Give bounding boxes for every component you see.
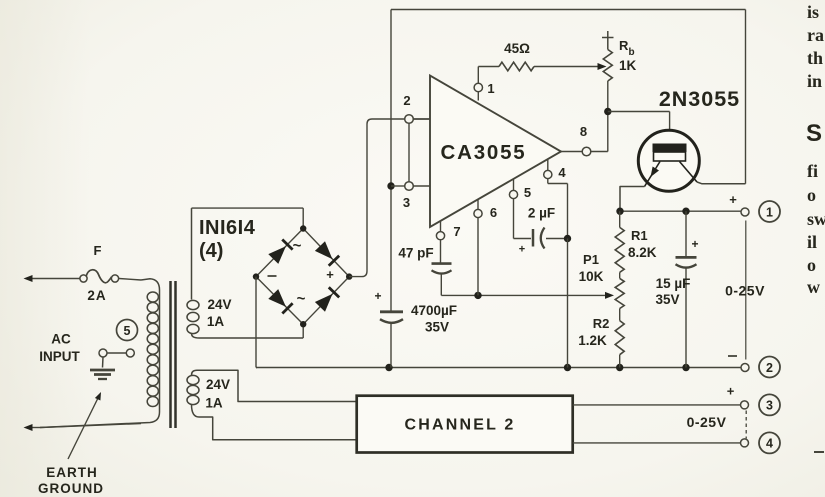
svg-text:is: is: [807, 2, 819, 22]
svg-text:7: 7: [453, 224, 460, 239]
node terminal 4 circled: [759, 432, 780, 453]
AC input terminal pair: [99, 349, 134, 357]
arrow AC line bottom left: [24, 424, 33, 431]
label 15uF 35V: [655, 276, 690, 307]
transistor emitter lead: [620, 162, 660, 212]
wire feedback to P1 wiper: [441, 294, 605, 296]
node 15uF top junction: [682, 208, 689, 215]
transformer core: [171, 281, 176, 428]
svg-text:1A: 1A: [205, 396, 223, 411]
op-amp pin 1: [474, 67, 495, 101]
svg-text:+: +: [326, 267, 334, 282]
wire channel2 plus out: [573, 404, 741, 406]
node pin6 junction: [474, 292, 481, 299]
wire top V+ rail frame: [391, 10, 746, 312]
wire R1 top lead: [619, 211, 621, 227]
svg-text:2: 2: [403, 93, 410, 108]
svg-text:2 µF: 2 µF: [528, 206, 555, 221]
svg-text:4: 4: [558, 165, 566, 180]
label CHANNEL 2: [404, 417, 515, 434]
svg-text:10K: 10K: [579, 269, 604, 284]
node bridge plus corner: [346, 273, 352, 279]
label plus terminal3: [727, 384, 735, 399]
label 24V 1A lower: [205, 377, 230, 411]
label 24V 1A upper: [207, 297, 232, 329]
transformer primary winding: [40, 279, 160, 428]
svg-text:1.2K: 1.2K: [578, 333, 607, 348]
svg-text:0-25V: 0-25V: [725, 283, 765, 299]
svg-text:sw: sw: [807, 209, 825, 229]
svg-text:35V: 35V: [425, 320, 449, 335]
wire 45ohm to Rb wiper: [534, 66, 598, 68]
block CHANNEL 2: [357, 396, 573, 453]
label 2A: [87, 288, 106, 303]
svg-text:+: +: [727, 384, 735, 399]
label 4700uF 35V: [411, 303, 457, 335]
capacitor 15uF: [676, 211, 699, 367]
wire R1-P1 link: [619, 272, 621, 278]
terminal 3 post: [741, 401, 749, 409]
label 0-25V upper: [725, 283, 765, 299]
transformer secondary 2 winding: [187, 370, 357, 440]
label 45 ohm: [504, 41, 530, 56]
label 0-25V lower: [687, 414, 727, 430]
resistor R2 1.2K: [615, 321, 624, 355]
capacitor 47pF: [432, 240, 452, 296]
diode D4 bridge bottom-right: [315, 287, 339, 311]
label Rb: [619, 38, 637, 73]
op-amp U1 CA3055 body: [430, 76, 561, 228]
node terminal 1 circled: [759, 201, 780, 222]
svg-text:fi: fi: [807, 161, 818, 181]
svg-text:w: w: [807, 277, 820, 297]
label 2N3055: [659, 87, 740, 111]
label 2uF plus: [519, 244, 525, 256]
wire pin6 down: [477, 218, 479, 296]
op-amp pin 7: [436, 221, 460, 240]
wire ground rail: [256, 367, 741, 369]
label plus terminal1: [729, 192, 737, 207]
transistor collector lead: [680, 162, 746, 184]
label 47pF: [398, 246, 433, 261]
svg-text:in: in: [807, 71, 822, 91]
bridge rectifier frame: [256, 229, 349, 325]
node terminal 3 circled: [759, 394, 780, 415]
resistor 45 ohm: [499, 62, 534, 71]
label minus terminal2: [728, 355, 737, 357]
fuse F terminals: [80, 275, 119, 282]
svg-text:CA3055: CA3055: [440, 141, 526, 164]
diode D2 bridge top-right: [315, 241, 339, 265]
svg-text:INI6I4: INI6I4: [199, 217, 256, 239]
svg-text:0-25V: 0-25V: [687, 414, 727, 430]
node junction pin3 tap on V+ rail: [387, 182, 394, 189]
wire base lead: [608, 112, 670, 147]
wire voltage bracket 3-4: [745, 411, 747, 439]
op-amp pin 8: [561, 124, 608, 156]
op-amp pin 4: [544, 159, 567, 180]
svg-text:8: 8: [580, 124, 587, 139]
wire R2 bottom lead: [619, 355, 621, 368]
potentiometer Rb 1K: [602, 31, 614, 152]
label bridge plus: [326, 267, 334, 282]
label EARTH GROUND: [38, 465, 104, 496]
wire pin5 down: [514, 199, 532, 239]
potentiometer P1 10K: [615, 278, 624, 308]
arrow Rb wiper: [598, 63, 607, 70]
svg-text:AC: AC: [51, 332, 71, 347]
svg-text:~: ~: [297, 291, 306, 308]
svg-text:47 pF: 47 pF: [398, 246, 433, 261]
wire AC line top: [30, 279, 141, 281]
wire 2uF junction to ground rail: [567, 239, 569, 368]
terminal 2 post: [741, 364, 749, 372]
svg-text:th: th: [807, 48, 823, 68]
transistor Q1 2N3055 body: [638, 130, 699, 191]
diode D1 bridge top-left: [268, 240, 292, 264]
svg-text:(4): (4): [199, 240, 223, 262]
node bridge AC bottom: [300, 321, 306, 327]
label bridge tilde bottom: [297, 291, 306, 308]
terminal 1 post: [741, 208, 749, 216]
svg-text:24V: 24V: [206, 377, 230, 392]
svg-text:1: 1: [487, 81, 494, 96]
svg-text:1: 1: [766, 205, 773, 219]
wire pin4 to 2uF: [548, 179, 568, 239]
wire P1-R2 link: [619, 309, 621, 321]
node Rb-base junction: [604, 108, 611, 115]
svg-text:2: 2: [766, 361, 773, 375]
svg-text:+: +: [691, 237, 698, 251]
wire bridge minus to ground rail: [256, 277, 257, 368]
op-amp pin 5: [509, 179, 531, 200]
wire pin1 to R 45ohm: [478, 66, 499, 68]
node ground rail x620: [616, 364, 623, 371]
arrow earth ground pointer: [68, 392, 101, 459]
svg-text:5: 5: [124, 324, 131, 338]
wire voltage bracket 1-2: [745, 221, 747, 360]
arrow P1 wiper: [605, 292, 614, 299]
wire secondary1 top to bridge AC top: [192, 208, 304, 228]
svg-text:o: o: [807, 185, 816, 205]
svg-text:R1: R1: [631, 228, 648, 243]
svg-text:INPUT: INPUT: [39, 349, 80, 364]
svg-text:24V: 24V: [207, 297, 231, 312]
earth ground symbol: [90, 357, 115, 379]
label IN1614 (4): [199, 217, 256, 262]
arrow AC line top left: [24, 275, 33, 282]
diode D3 bridge bottom-left: [268, 289, 292, 313]
label R2 1.2K: [578, 316, 609, 348]
svg-text:3: 3: [403, 195, 410, 210]
svg-text:1A: 1A: [207, 314, 225, 329]
svg-text:4700µF: 4700µF: [411, 303, 457, 318]
svg-text:ra: ra: [807, 25, 824, 45]
node bridge AC top: [300, 225, 306, 231]
transformer secondary 1 winding: [187, 208, 303, 338]
svg-text:CHANNEL 2: CHANNEL 2: [404, 417, 515, 434]
svg-text:4: 4: [766, 437, 773, 451]
wire pin2-pin3 link: [408, 123, 410, 181]
svg-text:35V: 35V: [655, 292, 679, 307]
node terminal 2 circled: [759, 357, 780, 378]
capacitor 4700uF: [374, 289, 403, 368]
capacitor 2uF: [533, 228, 568, 249]
svg-text:P1: P1: [583, 252, 599, 267]
terminal 4 post: [741, 439, 749, 447]
svg-text:3: 3: [766, 399, 773, 413]
node emitter-R1 junction: [616, 208, 623, 215]
svg-text:15 µF: 15 µF: [656, 276, 691, 291]
label bridge minus: [268, 275, 277, 277]
svg-text:~: ~: [293, 238, 302, 255]
label R1 8.2K: [628, 228, 657, 260]
svg-text:R: R: [619, 38, 629, 53]
op-amp pin 2: [403, 93, 430, 123]
svg-text:+: +: [729, 192, 737, 207]
node ground rail x686: [682, 364, 689, 371]
svg-text:S: S: [806, 120, 822, 147]
wire emitter output rail: [620, 210, 741, 212]
wire AC line bottom: [30, 424, 141, 428]
label bridge tilde top: [293, 238, 302, 255]
svg-text:il: il: [807, 232, 817, 252]
text right page column fragment: [806, 2, 825, 452]
svg-text:1K: 1K: [619, 58, 637, 73]
svg-text:6: 6: [490, 205, 497, 220]
wire bridge plus to pin2: [349, 119, 430, 277]
svg-text:F: F: [94, 243, 102, 258]
svg-text:+: +: [374, 289, 381, 303]
svg-text:R2: R2: [593, 316, 610, 331]
svg-text:5: 5: [524, 185, 531, 200]
svg-text:+: +: [519, 244, 525, 256]
resistor R1 8.2K: [615, 227, 624, 272]
wire channel2 minus out: [573, 442, 741, 444]
svg-text:2N3055: 2N3055: [659, 87, 740, 111]
circled node 5: [117, 320, 138, 341]
label P1 10K: [579, 252, 604, 284]
fuse F body: [86, 270, 111, 283]
node bridge minus corner: [253, 273, 259, 279]
svg-text:8.2K: 8.2K: [628, 245, 657, 260]
node ground rail x567: [564, 364, 571, 371]
svg-text:o: o: [807, 255, 816, 275]
node ground rail x389: [385, 364, 392, 371]
op-amp pin 6: [474, 199, 497, 220]
node pin4-2uF junction: [564, 235, 571, 242]
wire bridge AC bottom lead: [302, 324, 304, 338]
svg-text:45Ω: 45Ω: [504, 41, 530, 56]
svg-text:GROUND: GROUND: [38, 481, 104, 496]
label F: [94, 243, 102, 258]
label AC INPUT: [39, 332, 80, 365]
svg-text:EARTH: EARTH: [46, 465, 98, 480]
svg-text:b: b: [629, 47, 635, 58]
label 2uF: [528, 206, 555, 221]
label CA3055: [440, 141, 526, 164]
op-amp pin 3: [391, 182, 430, 210]
svg-text:2A: 2A: [87, 288, 106, 303]
